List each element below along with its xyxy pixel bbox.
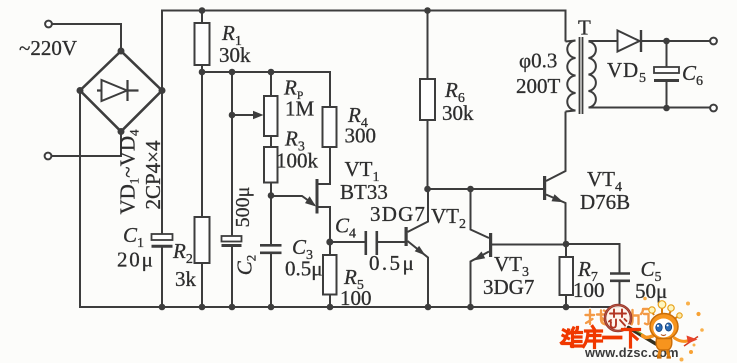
svg-text:D76B: D76B	[580, 190, 630, 214]
svg-text:200T: 200T	[516, 74, 561, 98]
svg-text:0.5μ: 0.5μ	[285, 257, 323, 281]
svg-text:500μ: 500μ	[232, 187, 254, 228]
svg-text:BT33: BT33	[340, 180, 388, 204]
svg-text:C4: C4	[335, 214, 356, 242]
svg-text:C2: C2	[233, 255, 259, 276]
svg-text:20μ: 20μ	[117, 248, 155, 272]
svg-text:0.5μ: 0.5μ	[369, 251, 416, 275]
svg-text:VD1~VD4: VD1~VD4	[116, 129, 142, 215]
svg-text:100: 100	[573, 278, 605, 302]
svg-text:1M: 1M	[285, 97, 315, 121]
svg-text:R2: R2	[172, 239, 193, 267]
svg-text:100: 100	[340, 286, 372, 310]
svg-text:30k: 30k	[442, 101, 474, 125]
svg-text:3DG7: 3DG7	[483, 275, 534, 299]
svg-text:T: T	[578, 16, 591, 40]
svg-text:2CP4×4: 2CP4×4	[141, 140, 165, 210]
svg-text:VD5: VD5	[607, 58, 647, 86]
svg-text:300: 300	[345, 124, 377, 148]
svg-text:φ0.3: φ0.3	[519, 49, 557, 73]
svg-text:100k: 100k	[276, 149, 319, 173]
svg-text:3DG7: 3DG7	[370, 202, 426, 226]
svg-text:~220V: ~220V	[19, 36, 77, 60]
svg-text:30k: 30k	[219, 43, 251, 67]
svg-text:3k: 3k	[175, 267, 197, 291]
svg-text:VT2: VT2	[431, 204, 466, 232]
svg-text:50μ: 50μ	[635, 279, 667, 303]
svg-text:C6: C6	[682, 61, 703, 89]
